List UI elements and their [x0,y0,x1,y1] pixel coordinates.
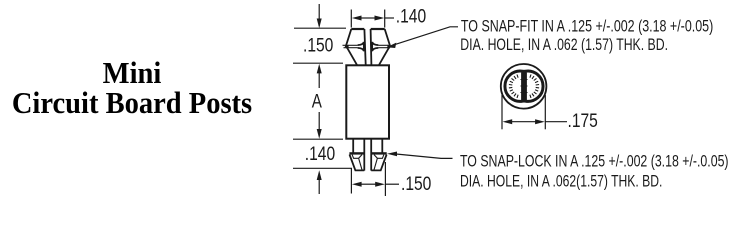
svg-text:DIA. HOLE, IN A .062 (1.57) TH: DIA. HOLE, IN A .062 (1.57) THK. BD. [460,36,668,54]
svg-text:TO SNAP-LOCK IN A .125 +/-.002: TO SNAP-LOCK IN A .125 +/-.002 (3.18 +/-… [460,153,729,171]
top view right half-post [525,71,543,101]
right bell [372,42,378,51]
title: Mini Circuit Board Posts [11,58,254,118]
neck walls [352,139,354,153]
svg-text:.175: .175 [568,110,598,132]
barb shoulders [349,152,364,154]
dimension .140 (top, head width) [351,10,394,28]
svg-text:DIA. HOLE, IN A .062(1.57) THK: DIA. HOLE, IN A .062(1.57) THK. BD. [460,173,662,191]
post side view: snap-fit head (top) [343,29,392,65]
left window [352,155,362,159]
right slot wall [370,29,373,65]
dimension .150 (top left, head height) [293,4,346,63]
right prong taper + bottom [371,155,386,171]
svg-text:.150: .150 [303,34,333,56]
post side view: snap-lock head (bottom) [349,139,386,171]
leader to snap-lock note [387,152,453,159]
left slot wall [364,29,365,65]
svg-text:A: A [312,90,323,112]
note: snap-lock text [460,153,729,191]
left barb tip [345,45,349,49]
left bell [358,42,364,51]
right barb tip [387,45,391,49]
note: snap-fit text [460,18,713,55]
dimension .175 (top view width) [502,95,567,129]
right prong outline [379,29,390,65]
svg-text:.140: .140 [305,142,335,164]
svg-text:TO SNAP-FIT IN A .125 +/-.002: TO SNAP-FIT IN A .125 +/-.002 (3.18 +/-0… [461,18,713,36]
slot walls [363,139,365,171]
svg-text:.150: .150 [401,173,431,195]
post body rectangle [346,65,389,138]
top view left half-post [505,71,523,101]
right window [374,155,384,159]
left slit lines [343,44,358,46]
left prong outline [346,29,357,65]
svg-text:.140: .140 [396,5,426,27]
right slit lines [378,44,389,46]
top view outer circle [501,64,547,109]
head top edges [351,28,364,30]
left prong taper + bottom [350,155,365,171]
dimension .140 (bottom left, snap-lock height) [293,139,352,194]
leader to snap-fit note [387,27,458,48]
dimension .150 (bottom, snap-lock width) [351,162,399,196]
left knurl ticks [509,75,518,98]
dimension A (body height) [317,64,322,139]
flat gap break marks [521,80,528,93]
right knurl ticks [530,75,539,98]
